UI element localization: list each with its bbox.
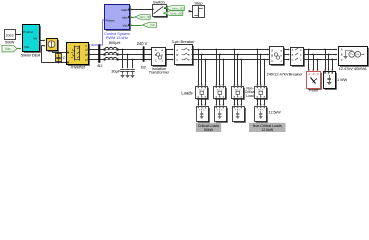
svg-text:Step: Step	[194, 0, 203, 5]
svg-text:Vabc_B0: Vabc_B0	[170, 11, 183, 15]
svg-text:3-ph Breaker: 3-ph Breaker	[171, 39, 195, 44]
svg-text:B: B	[271, 53, 273, 57]
svg-text:T B C: T B C	[235, 110, 241, 112]
svg-text:Control System: Control System	[104, 32, 130, 36]
svg-text:B2: B2	[141, 65, 147, 70]
svg-text:Transformer: Transformer	[149, 70, 170, 74]
svg-text:T B C: T B C	[258, 110, 264, 112]
svg-text:Pulses: Pulses	[106, 18, 116, 22]
svg-text:30µF: 30µF	[111, 68, 121, 73]
svg-text:240 V: 240 V	[137, 41, 148, 46]
svg-text:Inverter: Inverter	[71, 64, 86, 69]
svg-text:PWM 13 kHz: PWM 13 kHz	[106, 36, 128, 40]
svg-text:B1: B1	[98, 63, 104, 68]
svg-text:T B C: T B C	[217, 110, 223, 112]
svg-text:A: A	[271, 48, 273, 52]
svg-text:10e3: 10e3	[6, 34, 14, 38]
svg-text:12.5kW: 12.5kW	[269, 110, 282, 114]
svg-text:50kW: 50kW	[5, 40, 15, 44]
svg-text:C: C	[271, 59, 273, 63]
svg-text:Vdc: Vdc	[5, 47, 11, 51]
svg-text:Vabc: Vabc	[121, 8, 128, 12]
svg-text:1 MW: 1 MW	[337, 77, 347, 82]
svg-text:Critical Loads: Critical Loads	[198, 124, 219, 128]
svg-text:800µH: 800µH	[109, 40, 121, 45]
svg-text:Vabc_B2: Vabc_B2	[172, 6, 185, 10]
svg-text:Switch: Switch	[153, 0, 165, 5]
svg-text:50kW: 50kW	[204, 128, 214, 132]
svg-text:Loads: Loads	[181, 91, 192, 96]
svg-text:12.5kW: 12.5kW	[261, 128, 274, 132]
svg-text:P wind: P wind	[24, 30, 33, 34]
svg-text:50kW DER: 50kW DER	[21, 53, 41, 58]
svg-text:Vdc: Vdc	[150, 23, 156, 27]
svg-text:Load: Load	[246, 94, 254, 98]
svg-text:VA: VA	[33, 37, 37, 41]
svg-text:A: A	[155, 48, 157, 52]
svg-text:12.47kV 40MVA: 12.47kV 40MVA	[339, 66, 367, 71]
svg-text:Fault: Fault	[309, 88, 319, 93]
svg-text:Iabc: Iabc	[122, 16, 128, 20]
svg-text:Non-Critical Loads: Non-Critical Loads	[253, 124, 282, 128]
svg-text:Iabc_B2: Iabc_B2	[140, 15, 152, 19]
svg-text:C: C	[155, 59, 157, 63]
svg-text:240/12.47kV: 240/12.47kV	[267, 72, 289, 77]
svg-text:C: C	[63, 55, 66, 60]
svg-text:Vdc: Vdc	[123, 24, 129, 28]
svg-text:Breaker: Breaker	[289, 72, 303, 77]
svg-text:T B C: T B C	[199, 110, 205, 112]
svg-text:C: C	[292, 59, 294, 62]
svg-text:Vdc: Vdc	[24, 45, 30, 49]
